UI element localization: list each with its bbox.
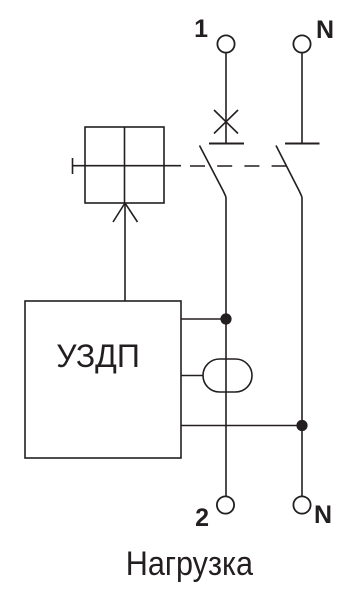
terminal 1 circle [217, 35, 234, 52]
terminal N bottom circle [293, 496, 310, 513]
svg-text:1: 1 [194, 15, 208, 43]
wire from terminal N to pole N fixed contact [301, 53, 303, 144]
current sensor oval [203, 359, 252, 392]
trip unit square with cross [85, 127, 164, 203]
wire UZDP lower tap to neutral line [181, 425, 302, 427]
svg-text:2: 2 [195, 504, 209, 532]
junction dot on phase line [220, 313, 231, 324]
mechanical linkage dashed line [181, 165, 287, 167]
svg-text:УЗДП: УЗДП [56, 338, 140, 374]
svg-text:N: N [316, 16, 334, 44]
wire from UZDP box to trip arrow [124, 203, 126, 301]
terminal 2 circle [217, 496, 234, 513]
svg-text:Нагрузка: Нагрузка [126, 545, 253, 583]
neutral wire from blade to terminal N bottom [301, 197, 303, 497]
terminal N top circle [293, 35, 310, 52]
pole N switch blade [276, 146, 302, 198]
circuit-breaker X symbol [214, 110, 238, 134]
UZDP box [25, 301, 181, 458]
wire UZDP upper tap to phase line [181, 318, 226, 320]
wire UZDP middle tap to current sensor [181, 375, 203, 377]
svg-text:N: N [314, 501, 332, 529]
pole 1 switch blade [200, 146, 227, 198]
phase wire from blade through sensor to terminal 2 [225, 197, 227, 497]
pole N fixed contact bar [285, 143, 320, 145]
junction dot on neutral line [296, 420, 307, 431]
wire from terminal 1 to pole 1 fixed contact [225, 53, 227, 144]
trip unit actuating line with end tick [73, 158, 182, 174]
pole 1 fixed contact bar [209, 143, 244, 145]
trip arrow into square [113, 203, 138, 222]
